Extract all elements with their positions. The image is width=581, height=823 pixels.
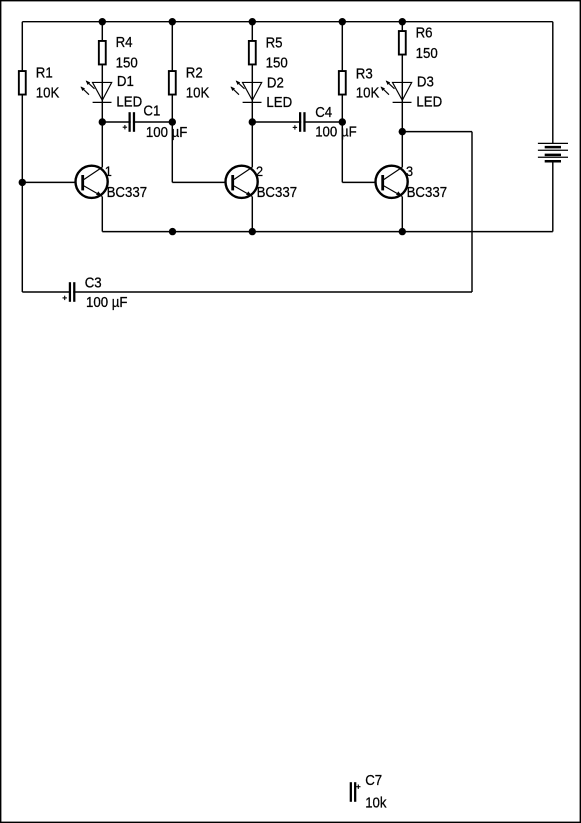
svg-text:R3: R3 bbox=[356, 66, 373, 82]
svg-text:D3: D3 bbox=[417, 74, 434, 90]
C3 plates bbox=[69, 282, 76, 302]
node Q1 collector/C1 bbox=[99, 118, 106, 125]
wire left vertical (R1 branch / Q1 base net) bbox=[21, 22, 23, 292]
svg-text:2: 2 bbox=[256, 164, 263, 180]
node Q3 collector/C3 feedback bbox=[399, 128, 406, 135]
C4 plates bbox=[299, 112, 306, 132]
C1 plates bbox=[129, 112, 136, 132]
wire Q1 emitter bbox=[101, 197, 103, 232]
wire Q2 collector branch bbox=[251, 22, 253, 167]
Q1 emitter lead with arrow bbox=[84, 186, 102, 197]
svg-text:3: 3 bbox=[406, 164, 413, 180]
wire C1 horizontal bbox=[102, 121, 172, 123]
C7 plates bbox=[350, 782, 357, 802]
capacitor C4 bbox=[293, 105, 357, 140]
svg-text:R1: R1 bbox=[36, 65, 53, 81]
resistor R1 bbox=[19, 65, 60, 101]
battery B1 bbox=[538, 143, 568, 161]
battery positive plate 1 bbox=[538, 142, 568, 144]
svg-text:10K: 10K bbox=[186, 85, 210, 101]
wire feedback vertical from Q3 collector bbox=[471, 132, 473, 292]
wire R2 branch vertical bbox=[171, 22, 173, 183]
svg-text:C4: C4 bbox=[315, 105, 332, 121]
node Q2 collector/C4 bbox=[249, 118, 256, 125]
capacitor C7 bbox=[350, 773, 387, 811]
wire top VCC rail bbox=[22, 21, 553, 23]
R2 body bbox=[169, 71, 176, 95]
resistor R4 bbox=[99, 34, 138, 70]
Q1 base bar bbox=[81, 175, 84, 190]
svg-text:R4: R4 bbox=[116, 34, 133, 50]
svg-text:BC337: BC337 bbox=[107, 185, 147, 201]
svg-text:R2: R2 bbox=[186, 65, 203, 81]
C3 polarity plus mark bbox=[63, 296, 67, 300]
wire Q2 emitter bbox=[251, 197, 253, 232]
wire Q2 base bbox=[172, 181, 224, 183]
C4 polarity plus mark bbox=[293, 125, 297, 129]
wire battery positive drop bbox=[552, 22, 554, 144]
node VCC/R6 bbox=[399, 18, 406, 25]
svg-text:10K: 10K bbox=[36, 85, 60, 101]
capacitor C3 bbox=[63, 275, 128, 310]
resistor R5 bbox=[249, 35, 288, 70]
node VCC/R3 bbox=[339, 18, 346, 25]
svg-text:C3: C3 bbox=[85, 275, 102, 291]
wire Q3 collector to feedback bbox=[402, 131, 472, 133]
svg-text:10K: 10K bbox=[356, 85, 380, 101]
svg-text:150: 150 bbox=[416, 46, 438, 62]
D1 emission arrow 2 bbox=[81, 87, 90, 95]
wire battery negative drop bbox=[552, 161, 554, 232]
D3 cathode bar bbox=[393, 101, 412, 103]
transistor Q2 BC337 bbox=[226, 164, 298, 200]
wire Q3 collector branch bbox=[401, 22, 403, 167]
node VCC/R4 bbox=[99, 18, 106, 25]
svg-text:R5: R5 bbox=[266, 35, 283, 51]
Q1 body circle bbox=[76, 166, 108, 198]
resistor R2 bbox=[169, 65, 210, 101]
Q3 emitter lead with arrow bbox=[384, 186, 402, 197]
D1 triangle bbox=[93, 82, 112, 100]
svg-text:D1: D1 bbox=[117, 73, 134, 89]
capacitor C1 bbox=[123, 103, 188, 140]
battery positive plate 3 bbox=[538, 156, 568, 158]
Q2 collector lead bbox=[234, 167, 253, 179]
node rail A bbox=[169, 228, 176, 235]
svg-text:LED: LED bbox=[116, 94, 142, 110]
svg-text:BC337: BC337 bbox=[407, 185, 447, 201]
svg-text:BC337: BC337 bbox=[257, 185, 297, 201]
node Q3 emitter/rail bbox=[399, 228, 406, 235]
R4 body bbox=[99, 41, 106, 64]
Q2 emitter lead with arrow bbox=[234, 186, 252, 197]
Q3 body circle bbox=[376, 166, 408, 198]
C7 polarity plus mark bbox=[356, 785, 360, 789]
svg-text:D2: D2 bbox=[267, 75, 284, 91]
node C1/R2 bbox=[169, 118, 176, 125]
node R1/Q1 base bbox=[19, 179, 26, 186]
svg-text:LED: LED bbox=[416, 94, 442, 110]
resistor R3 bbox=[339, 66, 380, 101]
resistor R6 bbox=[399, 25, 438, 61]
R1 body bbox=[19, 71, 26, 95]
node C4/R3 bbox=[339, 118, 346, 125]
svg-text:C7: C7 bbox=[365, 773, 382, 789]
wire Q1 base bbox=[22, 181, 74, 183]
Q3 collector lead bbox=[384, 167, 403, 179]
battery negative plate 1 bbox=[545, 146, 561, 149]
svg-text:LED: LED bbox=[266, 95, 292, 111]
node VCC/R2 bbox=[169, 18, 176, 25]
LED D1 bbox=[81, 73, 143, 109]
D3 emission arrow 2 bbox=[381, 87, 390, 95]
R6 body bbox=[399, 31, 406, 55]
D2 triangle bbox=[243, 82, 262, 100]
wire Q3 base bbox=[342, 181, 374, 183]
battery positive plate 2 bbox=[538, 149, 568, 151]
svg-text:100 µF: 100 µF bbox=[86, 294, 127, 310]
D1 emission arrow 1 bbox=[86, 81, 95, 89]
D3 emission arrow 1 bbox=[386, 81, 395, 89]
battery negative plate 3 bbox=[545, 160, 561, 163]
wire C4 horizontal bbox=[252, 121, 342, 123]
R5 body bbox=[249, 41, 256, 64]
svg-text:150: 150 bbox=[116, 55, 138, 71]
D1 cathode bar bbox=[93, 101, 112, 103]
svg-text:C1: C1 bbox=[143, 103, 160, 119]
svg-text:10k: 10k bbox=[365, 795, 386, 811]
D2 emission arrow 2 bbox=[231, 87, 240, 95]
svg-text:1: 1 bbox=[105, 164, 112, 180]
Q2 base bar bbox=[231, 175, 234, 190]
C1 polarity plus mark bbox=[123, 125, 127, 129]
D2 emission arrow 1 bbox=[236, 81, 245, 89]
R3 body bbox=[339, 71, 346, 95]
Q1 collector lead bbox=[84, 167, 103, 179]
D3 triangle bbox=[393, 82, 412, 100]
LED D2 bbox=[231, 75, 293, 110]
wire Q1 collector branch bbox=[101, 22, 103, 167]
wire emitter ground rail bbox=[102, 231, 553, 233]
svg-text:100 µF: 100 µF bbox=[146, 125, 187, 141]
wire R3 branch vertical bbox=[341, 22, 343, 183]
node Q2 emitter/rail bbox=[249, 228, 256, 235]
Q3 base bar bbox=[381, 175, 384, 190]
transistor Q1 BC337 bbox=[76, 164, 148, 200]
svg-text:150: 150 bbox=[266, 55, 288, 71]
node VCC/R5 bbox=[249, 18, 256, 25]
wire bottom C3 horizontal bbox=[22, 291, 472, 293]
Q2 body circle bbox=[226, 166, 258, 198]
wire Q3 emitter bbox=[401, 197, 403, 232]
svg-text:100 µF: 100 µF bbox=[315, 124, 356, 140]
svg-text:R6: R6 bbox=[416, 25, 433, 41]
D2 cathode bar bbox=[243, 101, 262, 103]
LED D3 bbox=[381, 74, 443, 110]
transistor Q3 BC337 bbox=[376, 164, 448, 200]
battery negative plate 2 bbox=[545, 154, 561, 157]
